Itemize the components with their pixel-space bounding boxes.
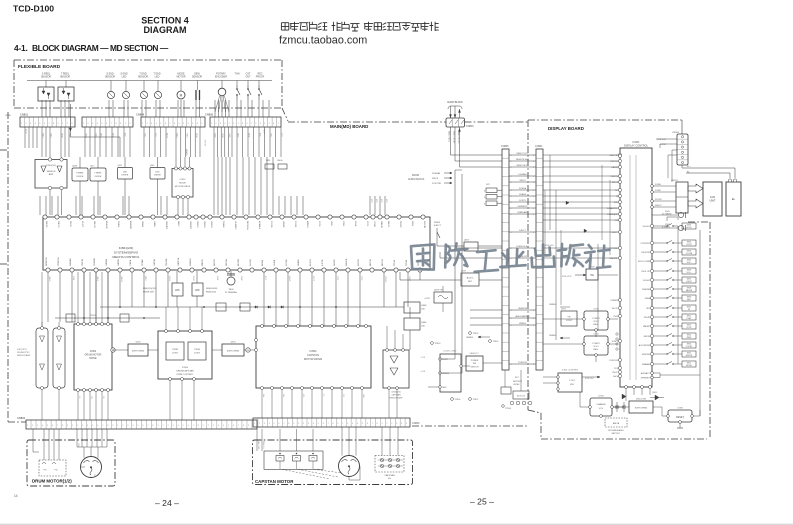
svg-text:XPB4E: XPB4E bbox=[282, 221, 284, 228]
svg-text:XENTER: XENTER bbox=[642, 354, 651, 356]
svg-text:SLED: SLED bbox=[214, 133, 216, 138]
svg-text:ACOUNTER: ACOUNTER bbox=[639, 344, 651, 347]
svg-text:CAPPB: CAPPB bbox=[117, 259, 120, 266]
svg-text:IC810(1/2): IC810(1/2) bbox=[46, 165, 56, 167]
svg-text:LPF: LPF bbox=[195, 288, 200, 292]
svg-text:FROM: FROM bbox=[412, 174, 419, 177]
svg-text:REMOTE: REMOTE bbox=[609, 155, 618, 157]
svg-text:PWDNB: PWDNB bbox=[190, 258, 192, 266]
svg-text:2: 2 bbox=[391, 423, 392, 425]
svg-text:VSSJ: VSSJ bbox=[342, 221, 344, 226]
svg-text:SYSPOW: SYSPOW bbox=[609, 360, 618, 362]
svg-text:SENSOR: SENSOR bbox=[138, 76, 148, 79]
svg-text:COIL: COIL bbox=[93, 474, 95, 478]
svg-text:OUT: OUT bbox=[245, 76, 251, 79]
svg-text:4: 4 bbox=[511, 208, 512, 210]
svg-text:DIGI/8A4: DIGI/8A4 bbox=[518, 173, 527, 176]
svg-text:TLED: TLED bbox=[228, 133, 230, 138]
svg-text:TRAL DLL: TRAL DLL bbox=[262, 441, 265, 449]
svg-text:UNIT: UNIT bbox=[709, 199, 715, 203]
svg-text:IC804: IC804 bbox=[310, 349, 317, 353]
svg-text:1: 1 bbox=[27, 425, 28, 427]
svg-text:1: 1 bbox=[211, 123, 212, 125]
svg-text:SO: SO bbox=[615, 190, 618, 192]
svg-text:4: 4 bbox=[156, 123, 157, 125]
svg-text:S905: S905 bbox=[687, 259, 691, 261]
svg-text:2: 2 bbox=[26, 123, 27, 125]
svg-text:TP803: TP803 bbox=[435, 343, 442, 345]
svg-text:6: 6 bbox=[165, 123, 166, 125]
svg-text:UNTAC: UNTAC bbox=[513, 383, 520, 386]
svg-text:RVCC: RVCC bbox=[612, 372, 618, 374]
svg-text:+3.3V: +3.3V bbox=[26, 128, 28, 134]
svg-text:2: 2 bbox=[188, 123, 189, 125]
svg-text:SIRCS: SIRCS bbox=[432, 178, 439, 180]
svg-text:5: 5 bbox=[102, 123, 103, 125]
svg-text:S909: S909 bbox=[687, 296, 691, 298]
svg-text:CN801: CN801 bbox=[20, 113, 29, 117]
svg-text:8: 8 bbox=[377, 423, 378, 425]
svg-text:REMOTE VCC: REMOTE VCC bbox=[457, 131, 459, 144]
svg-text:2: 2 bbox=[67, 123, 68, 125]
svg-text:5: 5 bbox=[274, 423, 275, 425]
svg-text:9: 9 bbox=[67, 425, 68, 427]
svg-text:4: 4 bbox=[511, 196, 512, 198]
svg-text:1: 1 bbox=[298, 423, 299, 425]
svg-text:1: 1 bbox=[342, 423, 343, 425]
svg-text:9: 9 bbox=[112, 425, 113, 427]
svg-text:XRES1: XRES1 bbox=[196, 221, 198, 228]
svg-text:SIRCS: SIRCS bbox=[612, 182, 619, 184]
svg-text:RECHARGEABLE: RECHARGEABLE bbox=[608, 429, 624, 432]
svg-text:XPAUSE: XPAUSE bbox=[642, 288, 651, 291]
svg-text:REMOTE D1: REMOTE D1 bbox=[448, 131, 450, 142]
svg-text:8: 8 bbox=[243, 425, 244, 427]
svg-text:UNREG: UNREG bbox=[442, 373, 450, 375]
svg-text:TEND: TEND bbox=[85, 133, 87, 139]
svg-text:2: 2 bbox=[215, 123, 216, 125]
svg-text:6: 6 bbox=[143, 425, 144, 427]
svg-text:XSIRCS: XSIRCS bbox=[611, 176, 619, 178]
svg-text:4: 4 bbox=[533, 310, 534, 312]
svg-text:ENSL2E: ENSL2E bbox=[105, 221, 107, 229]
svg-text:5: 5 bbox=[39, 123, 40, 125]
svg-text:2: 2 bbox=[259, 423, 260, 425]
svg-text:EL-: EL- bbox=[687, 172, 690, 174]
svg-text:S921: S921 bbox=[687, 352, 691, 354]
svg-text:6: 6 bbox=[106, 123, 107, 125]
svg-text:5: 5 bbox=[137, 425, 138, 427]
svg-text:fzmcu.taobao.com: fzmcu.taobao.com bbox=[279, 35, 367, 47]
svg-text:SRLS: SRLS bbox=[42, 133, 44, 138]
svg-text:UNREG: UNREG bbox=[549, 335, 557, 337]
svg-text:XPLAY: XPLAY bbox=[644, 316, 651, 319]
svg-text:2: 2 bbox=[77, 425, 78, 427]
svg-text:SYSNO: SYSNO bbox=[611, 248, 618, 250]
svg-text:PCM TRE: PCM TRE bbox=[432, 183, 442, 185]
svg-text:3: 3 bbox=[37, 425, 38, 427]
svg-text:S907: S907 bbox=[687, 278, 691, 280]
svg-text:4: 4 bbox=[178, 425, 179, 427]
svg-text:4: 4 bbox=[42, 425, 43, 427]
svg-text:MDM: MDM bbox=[100, 133, 102, 138]
svg-text:DEW: DEW bbox=[112, 133, 114, 137]
svg-text:5: 5 bbox=[160, 123, 161, 125]
svg-text:SYSPOW: SYSPOW bbox=[518, 362, 527, 364]
svg-text:SYS VCC: SYS VCC bbox=[585, 378, 594, 380]
svg-text:2: 2 bbox=[168, 425, 169, 427]
svg-text:3: 3 bbox=[260, 123, 261, 125]
svg-text:XRES2: XRES2 bbox=[203, 221, 205, 228]
svg-text:FLEXIBLE BOARD: FLEXIBLE BOARD bbox=[18, 64, 61, 70]
svg-text:DW: DW bbox=[90, 396, 92, 399]
svg-text:9: 9 bbox=[120, 123, 121, 125]
svg-text:7: 7 bbox=[102, 425, 103, 427]
svg-text:SLEPB: SLEPB bbox=[334, 259, 336, 266]
svg-text:3: 3 bbox=[218, 425, 219, 427]
svg-text:S902: S902 bbox=[687, 241, 691, 243]
svg-text:V OUT: V OUT bbox=[569, 380, 576, 382]
svg-text:8: 8 bbox=[288, 423, 289, 425]
svg-text:5: 5 bbox=[362, 423, 363, 425]
svg-text:MOTOR DRIVE: MOTOR DRIVE bbox=[304, 357, 323, 361]
svg-text:IC901: IC901 bbox=[633, 140, 640, 144]
svg-text:9: 9 bbox=[293, 423, 294, 425]
svg-text:4: 4 bbox=[511, 202, 512, 204]
svg-text:6: 6 bbox=[52, 425, 53, 427]
svg-text:MUTEB: MUTEB bbox=[238, 258, 240, 266]
svg-text:CLOSE: CLOSE bbox=[686, 253, 693, 255]
svg-text:4: 4 bbox=[511, 318, 512, 320]
svg-text:5: 5 bbox=[229, 123, 230, 125]
svg-text:1: 1 bbox=[163, 425, 164, 427]
svg-text:HALL VND: HALL VND bbox=[257, 441, 260, 450]
svg-text:F8: F8 bbox=[247, 350, 249, 352]
svg-text:4: 4 bbox=[511, 232, 512, 234]
svg-text:B9Y: B9Y bbox=[515, 377, 519, 379]
svg-text:4: 4 bbox=[224, 123, 225, 125]
svg-text:DRUM/OPTIC: DRUM/OPTIC bbox=[17, 352, 30, 354]
svg-text:THN: THN bbox=[235, 73, 240, 76]
svg-text:WAKEUP: WAKEUP bbox=[609, 257, 618, 260]
svg-text:VCCL: VCCL bbox=[366, 221, 368, 227]
svg-text:SXIMB-: SXIMB- bbox=[655, 184, 662, 186]
svg-text:2: 2 bbox=[347, 423, 348, 425]
svg-text:SENSOR: SENSOR bbox=[47, 171, 56, 173]
svg-text:G.CNT: G.CNT bbox=[660, 144, 667, 146]
svg-text:3: 3 bbox=[220, 123, 221, 125]
svg-text:DRIVE: DRIVE bbox=[122, 175, 129, 177]
svg-text:PB/SE DET: PB/SE DET bbox=[143, 292, 155, 294]
svg-text:7: 7 bbox=[49, 123, 50, 125]
svg-text:3: 3 bbox=[151, 123, 152, 125]
svg-text:SVADA: SVADA bbox=[519, 193, 526, 196]
svg-text:TLED: TLED bbox=[95, 133, 97, 138]
svg-text:VDDI: VDDI bbox=[330, 221, 332, 226]
svg-text:SXIMB: SXIMB bbox=[655, 190, 661, 192]
svg-text:SRCHB: SRCHB bbox=[226, 258, 228, 266]
svg-text:EL: EL bbox=[732, 197, 736, 201]
svg-text:SOLK: SOLK bbox=[354, 221, 356, 227]
svg-text:4: 4 bbox=[87, 425, 88, 427]
svg-text:ACABLA: ACABLA bbox=[258, 221, 261, 230]
svg-text:FG: FG bbox=[388, 478, 391, 480]
svg-text:SCKTD: SCKTD bbox=[519, 200, 526, 202]
svg-text:PLLIN: PLLIN bbox=[69, 221, 71, 227]
svg-text:PROOF: PROOF bbox=[256, 76, 265, 79]
svg-text:PWM: PWM bbox=[194, 349, 200, 351]
svg-text:4: 4 bbox=[533, 176, 534, 178]
svg-text:4: 4 bbox=[533, 167, 534, 169]
svg-text:CONT: CONT bbox=[686, 244, 692, 246]
svg-text:4: 4 bbox=[533, 161, 534, 163]
svg-text:8: 8 bbox=[153, 425, 154, 427]
svg-text:S913: S913 bbox=[687, 324, 691, 326]
svg-text:4: 4 bbox=[533, 208, 534, 210]
svg-text:8: 8 bbox=[53, 123, 54, 125]
svg-text:CN909: CN909 bbox=[672, 132, 680, 134]
svg-text:TP801: TP801 bbox=[90, 315, 96, 317]
svg-text:3: 3 bbox=[352, 423, 353, 425]
svg-text:6: 6 bbox=[44, 123, 45, 125]
svg-text:AXEVACT: AXEVACT bbox=[641, 372, 651, 375]
svg-text:S916: S916 bbox=[687, 343, 691, 345]
svg-text:CN806: CN806 bbox=[412, 422, 420, 425]
svg-text:DISPLAY CONTROL: DISPLAY CONTROL bbox=[624, 144, 649, 148]
svg-text:XUNAWRST: XUNAWRST bbox=[607, 207, 619, 210]
svg-text:4: 4 bbox=[511, 167, 512, 169]
svg-text:SDATB: SDATB bbox=[297, 259, 300, 266]
svg-text:UNREG: UNREG bbox=[549, 304, 557, 306]
svg-text:VAFSIP: VAFSIP bbox=[643, 325, 651, 328]
svg-text:XRESET: XRESET bbox=[189, 221, 191, 230]
svg-text:S914: S914 bbox=[687, 334, 691, 336]
svg-text:SW03: SW03 bbox=[434, 222, 441, 224]
svg-text:TP804: TP804 bbox=[493, 341, 500, 343]
svg-text:S903: S903 bbox=[687, 250, 691, 252]
svg-text:CAPSTAN: CAPSTAN bbox=[307, 353, 319, 357]
svg-text:VDD: VDD bbox=[570, 384, 575, 386]
svg-text:XTANDARD: XTANDARD bbox=[607, 213, 618, 216]
svg-text:4: 4 bbox=[511, 364, 512, 366]
svg-text:LED: LED bbox=[155, 172, 160, 174]
svg-text:IC806: IC806 bbox=[182, 367, 189, 369]
svg-text:T REEL: T REEL bbox=[94, 173, 102, 175]
svg-text:CHARGE: CHARGE bbox=[596, 403, 606, 406]
svg-text:TP802: TP802 bbox=[473, 333, 480, 335]
svg-text:REMOT VCC: REMOT VCC bbox=[517, 153, 530, 155]
svg-text:– 24 –: – 24 – bbox=[155, 498, 179, 508]
svg-text:4: 4 bbox=[533, 318, 534, 320]
svg-text:LCD: LCD bbox=[710, 195, 715, 199]
svg-text:4: 4 bbox=[97, 123, 98, 125]
svg-text:14: 14 bbox=[14, 494, 18, 498]
svg-text:4.19MHz: 4.19MHz bbox=[662, 227, 670, 229]
svg-text:7: 7 bbox=[238, 123, 239, 125]
svg-text:RSTXB: RSTXB bbox=[358, 259, 360, 266]
svg-text:UNREG: UNREG bbox=[466, 337, 474, 339]
svg-text:SIRCS: SIRCS bbox=[519, 180, 526, 182]
svg-text:REMOTE DT: REMOTE DT bbox=[517, 165, 530, 167]
svg-text:SW: SW bbox=[473, 363, 476, 365]
svg-text:6: 6 bbox=[273, 123, 274, 125]
svg-text:9: 9 bbox=[248, 425, 249, 427]
svg-text:TP806: TP806 bbox=[455, 399, 462, 401]
svg-text:5: 5 bbox=[406, 423, 407, 425]
svg-text:9: 9 bbox=[337, 423, 338, 425]
svg-text:7: 7 bbox=[148, 425, 149, 427]
svg-text:SWITCHING: SWITCHING bbox=[227, 351, 240, 353]
svg-text:9: 9 bbox=[382, 423, 383, 425]
svg-text:REG.: REG. bbox=[593, 349, 599, 351]
svg-text:PAUSE: PAUSE bbox=[686, 289, 693, 292]
svg-text:7: 7 bbox=[57, 425, 58, 427]
svg-text:4-1.: 4-1. bbox=[14, 43, 28, 53]
svg-text:4: 4 bbox=[511, 190, 512, 192]
svg-text:SRLFG: SRLFG bbox=[45, 221, 47, 228]
svg-text:4: 4 bbox=[511, 248, 512, 250]
svg-text:PBDTB: PBDTB bbox=[202, 259, 204, 266]
svg-text:4: 4 bbox=[511, 214, 512, 216]
svg-text:1: 1 bbox=[254, 423, 255, 425]
svg-text:ADINB: ADINB bbox=[261, 259, 264, 266]
svg-text:CMBA: CMBA bbox=[141, 221, 144, 227]
svg-text:CMOSB: CMOSB bbox=[166, 258, 168, 266]
svg-text:EJCTB: EJCTB bbox=[322, 259, 324, 266]
svg-text:Q808: Q808 bbox=[421, 305, 427, 307]
svg-text:7: 7 bbox=[328, 423, 329, 425]
svg-text:ENTER: ENTER bbox=[686, 355, 693, 357]
svg-text:DRUM/CAPSTAN: DRUM/CAPSTAN bbox=[176, 370, 194, 373]
svg-text:TWAIN: TWAIN bbox=[222, 221, 225, 228]
svg-text:5: 5 bbox=[92, 425, 93, 427]
svg-text:TEND: TEND bbox=[221, 133, 223, 139]
svg-text:4: 4 bbox=[533, 325, 534, 327]
svg-text:PG: PG bbox=[55, 470, 58, 472]
svg-text:VOLT: VOLT bbox=[593, 321, 599, 323]
svg-text:RGBLD34: RGBLD34 bbox=[206, 292, 217, 294]
svg-text:9: 9 bbox=[58, 123, 59, 125]
svg-text:ENCODER: ENCODER bbox=[215, 76, 227, 79]
svg-text:6: 6 bbox=[279, 423, 280, 425]
svg-text:MODE: MODE bbox=[179, 183, 186, 185]
svg-text:CN912: CN912 bbox=[671, 180, 679, 182]
svg-text:DC/DC CONV: DC/DC CONV bbox=[444, 351, 457, 353]
svg-text:DINQ: DINQ bbox=[411, 221, 413, 226]
svg-text:COM: COM bbox=[77, 443, 79, 448]
svg-text:IC941: IC941 bbox=[593, 309, 599, 311]
svg-text:CAPSTAN MOTOR: CAPSTAN MOTOR bbox=[255, 479, 294, 484]
svg-text:S922: S922 bbox=[687, 362, 691, 364]
svg-text:CONST: CONST bbox=[592, 318, 600, 320]
svg-text:CONST: CONST bbox=[592, 343, 600, 345]
svg-text:HOLD: HOLD bbox=[686, 227, 692, 229]
svg-text:KVW: KVW bbox=[613, 316, 618, 318]
svg-text:S912: S912 bbox=[687, 315, 691, 317]
svg-text:6: 6 bbox=[233, 123, 234, 125]
svg-text:8: 8 bbox=[242, 123, 243, 125]
svg-text:LPF: LPF bbox=[175, 288, 180, 292]
svg-text:2: 2 bbox=[147, 123, 148, 125]
svg-text:CARB: CARB bbox=[153, 221, 156, 227]
svg-text:DOUTR: DOUTR bbox=[423, 221, 425, 229]
svg-text:5: 5 bbox=[318, 423, 319, 425]
svg-text:AVMTG: AVMTG bbox=[306, 221, 309, 228]
svg-text:LANIES: LANIES bbox=[185, 149, 188, 156]
svg-text:8: 8 bbox=[115, 123, 116, 125]
svg-text:S911: S911 bbox=[687, 306, 691, 308]
svg-text:4: 4 bbox=[511, 161, 512, 163]
svg-text:KVW 2: KVW 2 bbox=[612, 341, 619, 343]
svg-text:+3.3V: +3.3V bbox=[424, 298, 430, 300]
svg-text:S REEL: S REEL bbox=[76, 173, 85, 175]
svg-text:S906: S906 bbox=[687, 269, 691, 271]
svg-text:6: 6 bbox=[367, 423, 368, 425]
svg-text:RESET: RESET bbox=[676, 416, 685, 419]
svg-text:CMBTEF: CMBTEF bbox=[165, 221, 167, 230]
svg-text:9: 9 bbox=[247, 123, 248, 125]
svg-text:8: 8 bbox=[333, 423, 334, 425]
svg-text:QE1F 5F3: QE1F 5F3 bbox=[434, 290, 444, 292]
svg-text:MDM: MDM bbox=[237, 133, 239, 138]
svg-text:BLOCK DIAGRAM — MD SECTION —: BLOCK DIAGRAM — MD SECTION — bbox=[32, 43, 169, 53]
svg-text:– 25 –: – 25 – bbox=[470, 497, 494, 507]
svg-text:CMKTB: CMKTB bbox=[82, 258, 84, 266]
svg-text:SENC: SENC bbox=[177, 221, 179, 227]
svg-text:2: 2 bbox=[32, 425, 33, 427]
svg-text:7: 7 bbox=[372, 423, 373, 425]
svg-text:IC815: IC815 bbox=[180, 179, 187, 181]
svg-text:DRIVE: DRIVE bbox=[89, 357, 97, 360]
svg-text:XCKM: XCKM bbox=[373, 221, 375, 227]
svg-text:AUDIO BLOCK: AUDIO BLOCK bbox=[447, 101, 463, 104]
svg-text:DIAGRAM: DIAGRAM bbox=[144, 25, 187, 35]
svg-text:MECHA CONTROL: MECHA CONTROL bbox=[113, 255, 140, 259]
svg-text:4: 4 bbox=[197, 123, 198, 125]
svg-text:3: 3 bbox=[173, 425, 174, 427]
svg-text:LED: LED bbox=[155, 76, 160, 79]
svg-text:11.2896MHz: 11.2896MHz bbox=[225, 292, 237, 294]
svg-text:9: 9 bbox=[179, 123, 180, 125]
svg-text:8: 8 bbox=[107, 425, 108, 427]
svg-text:DRIVE: DRIVE bbox=[77, 176, 84, 178]
svg-text:1: 1 bbox=[83, 123, 84, 125]
svg-text:6: 6 bbox=[188, 425, 189, 427]
svg-text:CONT: CONT bbox=[194, 353, 201, 355]
svg-text:RFDTB: RFDTB bbox=[214, 259, 216, 266]
svg-text:CKTAB: CKTAB bbox=[141, 259, 144, 266]
svg-text:CW: CW bbox=[342, 394, 344, 397]
svg-text:CAPQB: CAPQB bbox=[153, 258, 156, 266]
svg-text:VOLT: VOLT bbox=[593, 346, 599, 348]
svg-text:SWMBB: SWMBB bbox=[70, 258, 72, 266]
svg-text:4: 4 bbox=[533, 190, 534, 192]
svg-text:CALED: CALED bbox=[611, 166, 618, 169]
svg-text:LRMXN: LRMXN bbox=[380, 221, 382, 229]
svg-text:SENSOR: SENSOR bbox=[60, 76, 70, 79]
svg-text:XREA: XREA bbox=[645, 297, 651, 300]
svg-text:1: 1 bbox=[142, 123, 143, 125]
svg-text:4: 4 bbox=[511, 176, 512, 178]
svg-text:6: 6 bbox=[233, 425, 234, 427]
svg-text:1: 1 bbox=[62, 123, 63, 125]
svg-text:4: 4 bbox=[35, 123, 36, 125]
svg-text:8: 8 bbox=[62, 425, 63, 427]
svg-text:3: 3 bbox=[92, 123, 93, 125]
svg-text:TRLFG: TRLFG bbox=[57, 221, 59, 228]
svg-text:DGLVB: DGLVB bbox=[250, 259, 252, 266]
svg-text:4: 4 bbox=[313, 423, 314, 425]
